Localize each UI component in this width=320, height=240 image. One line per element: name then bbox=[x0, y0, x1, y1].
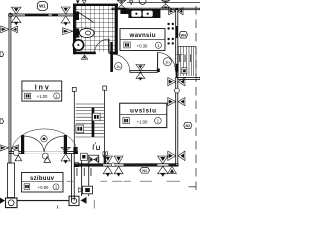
wall end cap bbox=[157, 69, 160, 72]
wall left terrace pilaster bbox=[8, 163, 15, 198]
bathroom wall bottom bbox=[73, 52, 96, 55]
window east wall 2 bbox=[168, 98, 185, 106]
svg-text:1b: 1b bbox=[116, 64, 121, 69]
marker triangle below bathroom wall bbox=[81, 55, 87, 59]
wall house south bbox=[74, 164, 178, 166]
markers above bathroom bbox=[76, 0, 86, 3]
wall poche south segments bbox=[75, 164, 104, 166]
window top wall 2 bbox=[61, 7, 70, 26]
stairs center stringer bbox=[92, 108, 95, 137]
stairs rail right bbox=[104, 90, 106, 164]
markers above counter bbox=[129, 0, 146, 5]
label box terrace bbox=[22, 173, 63, 193]
svg-text:1b: 1b bbox=[165, 59, 170, 64]
bathroom door swing bbox=[94, 39, 109, 54]
hexagon label W4 bbox=[179, 32, 187, 38]
svg-text:szibuuv: szibuuv bbox=[30, 176, 55, 182]
wall east upper kitchen bbox=[176, 9, 178, 72]
newel post left bbox=[72, 87, 76, 91]
sink basin bbox=[73, 40, 83, 50]
wall section dots upper bbox=[167, 23, 174, 30]
door label circle 10 right bbox=[163, 58, 171, 66]
marker circle below french door bbox=[42, 153, 48, 159]
bathroom wall top bbox=[73, 4, 118, 6]
svg-text:N2: N2 bbox=[185, 124, 190, 128]
newel post right bbox=[103, 86, 107, 90]
kitchen door left swing bbox=[113, 54, 130, 71]
hexagon label left edge A bbox=[0, 52, 4, 57]
kitchen sink right bbox=[143, 11, 153, 17]
bathroom floor tile hatch bbox=[76, 6, 115, 52]
terrace south edge line bbox=[17, 200, 69, 202]
kitchen door left leaf bbox=[112, 54, 114, 71]
dimension dashes row bbox=[67, 180, 181, 182]
label box living bbox=[120, 103, 167, 127]
window left wall 1 bbox=[1, 26, 18, 33]
markers right of counter bbox=[162, 0, 183, 15]
text up label stairs bbox=[93, 143, 99, 150]
wall terrace east bbox=[72, 154, 75, 201]
svg-text:wavnsiu: wavnsiu bbox=[129, 32, 156, 39]
wall top kitchen bbox=[112, 8, 200, 10]
stair direction box upper bbox=[93, 113, 101, 121]
grid line dashed right bbox=[195, 6, 197, 190]
column corner top-left bbox=[9, 13, 13, 17]
hexagon label N2 bbox=[184, 122, 192, 128]
bathroom wall right bbox=[115, 4, 118, 55]
window cluster left of bathroom bbox=[63, 28, 73, 35]
kitchen counter bbox=[128, 9, 160, 18]
window above kitchen west bbox=[117, 0, 125, 10]
svg-text:+1.00: +1.00 bbox=[137, 119, 148, 124]
marker triangle left wall door bbox=[15, 155, 22, 161]
label box kitchen bbox=[120, 29, 165, 51]
door jamb post left bbox=[21, 135, 24, 153]
wall end cap french door bbox=[73, 147, 77, 154]
wall hall south with french door opening bbox=[9, 151, 78, 154]
toilet tank bbox=[75, 28, 80, 37]
toilet bowl bbox=[80, 28, 95, 37]
svg-text:+0.30: +0.30 bbox=[137, 44, 148, 49]
svg-text:W4: W4 bbox=[181, 33, 186, 37]
hexagon label left edge B bbox=[0, 119, 4, 124]
stairs rail left bbox=[73, 91, 75, 153]
svg-text:uvslsiu: uvslsiu bbox=[130, 107, 156, 114]
wall section dots lower bbox=[167, 38, 174, 45]
column bottom terrace-steps bbox=[17, 196, 79, 205]
wall kitchen south between doors bbox=[130, 71, 158, 73]
deck edge line top bbox=[127, 2, 200, 4]
svg-text:N1: N1 bbox=[142, 169, 147, 173]
wall left exterior bbox=[9, 14, 11, 163]
boxed window marker south-west bbox=[88, 155, 99, 164]
stairs main treads bbox=[76, 104, 105, 137]
rail wall end poche bbox=[104, 156, 106, 164]
svg-text:+0.90: +0.90 bbox=[38, 185, 49, 190]
door frame marks hall-living bbox=[103, 152, 108, 155]
bathroom wall left bbox=[73, 4, 76, 55]
hexagon label N1 bbox=[140, 168, 150, 174]
window french door right bbox=[61, 147, 70, 164]
octagon label W1 bbox=[37, 2, 47, 11]
window vent above wall between doors bbox=[136, 65, 145, 81]
stair direction box lower bbox=[76, 125, 84, 133]
dimension arrow left edge bottom bbox=[0, 198, 5, 204]
bathroom door leaf bbox=[108, 39, 110, 54]
shower screen diagonal bbox=[77, 11, 94, 22]
label box hall bbox=[22, 81, 62, 101]
node circle east wall bbox=[175, 88, 180, 93]
tick mark bottom edge bbox=[58, 205, 60, 208]
step marker box with cross bbox=[79, 186, 93, 194]
kitchen wall left lower bbox=[110, 42, 112, 72]
kitchen sink left bbox=[131, 11, 141, 17]
wall stub left of counter bbox=[120, 9, 128, 14]
window east wall 1 bbox=[168, 78, 185, 86]
french door swing big arc bbox=[12, 129, 78, 151]
door label circle 10 left bbox=[115, 62, 122, 69]
window east wall 3 bbox=[168, 151, 185, 160]
marker circle left wall door bbox=[13, 150, 19, 156]
box on terrace east wall bbox=[74, 162, 78, 166]
svg-text:W1: W1 bbox=[39, 4, 46, 9]
wall top-left exterior bbox=[9, 14, 75, 16]
svg-text:+1.00: +1.00 bbox=[37, 94, 48, 99]
wall east lower bbox=[176, 77, 178, 166]
french door leaf left petal bbox=[23, 136, 44, 152]
dimension arrow pointing to column bottom bbox=[81, 197, 87, 204]
kitchen door right leaf bbox=[157, 52, 159, 70]
window south 2 bbox=[158, 156, 177, 177]
column bottom-left bbox=[6, 198, 18, 208]
wall landing south bbox=[178, 77, 200, 79]
french door center pivot circle bbox=[41, 136, 47, 142]
window left wall 2 bbox=[0, 145, 19, 151]
shower fixture bbox=[74, 12, 79, 20]
dash mark bottom bbox=[93, 200, 95, 209]
marker box hall bbox=[81, 153, 88, 160]
french door leaf right petal bbox=[44, 136, 65, 152]
marker triangle below french door bbox=[44, 157, 51, 163]
stairs exterior right bbox=[176, 46, 196, 76]
terrace side steps risers bbox=[76, 161, 91, 197]
window top wall 1 bbox=[11, 7, 21, 25]
window south 1 bbox=[103, 156, 123, 177]
kitchen door right swing bbox=[158, 52, 176, 70]
door jamb post right bbox=[64, 135, 67, 153]
